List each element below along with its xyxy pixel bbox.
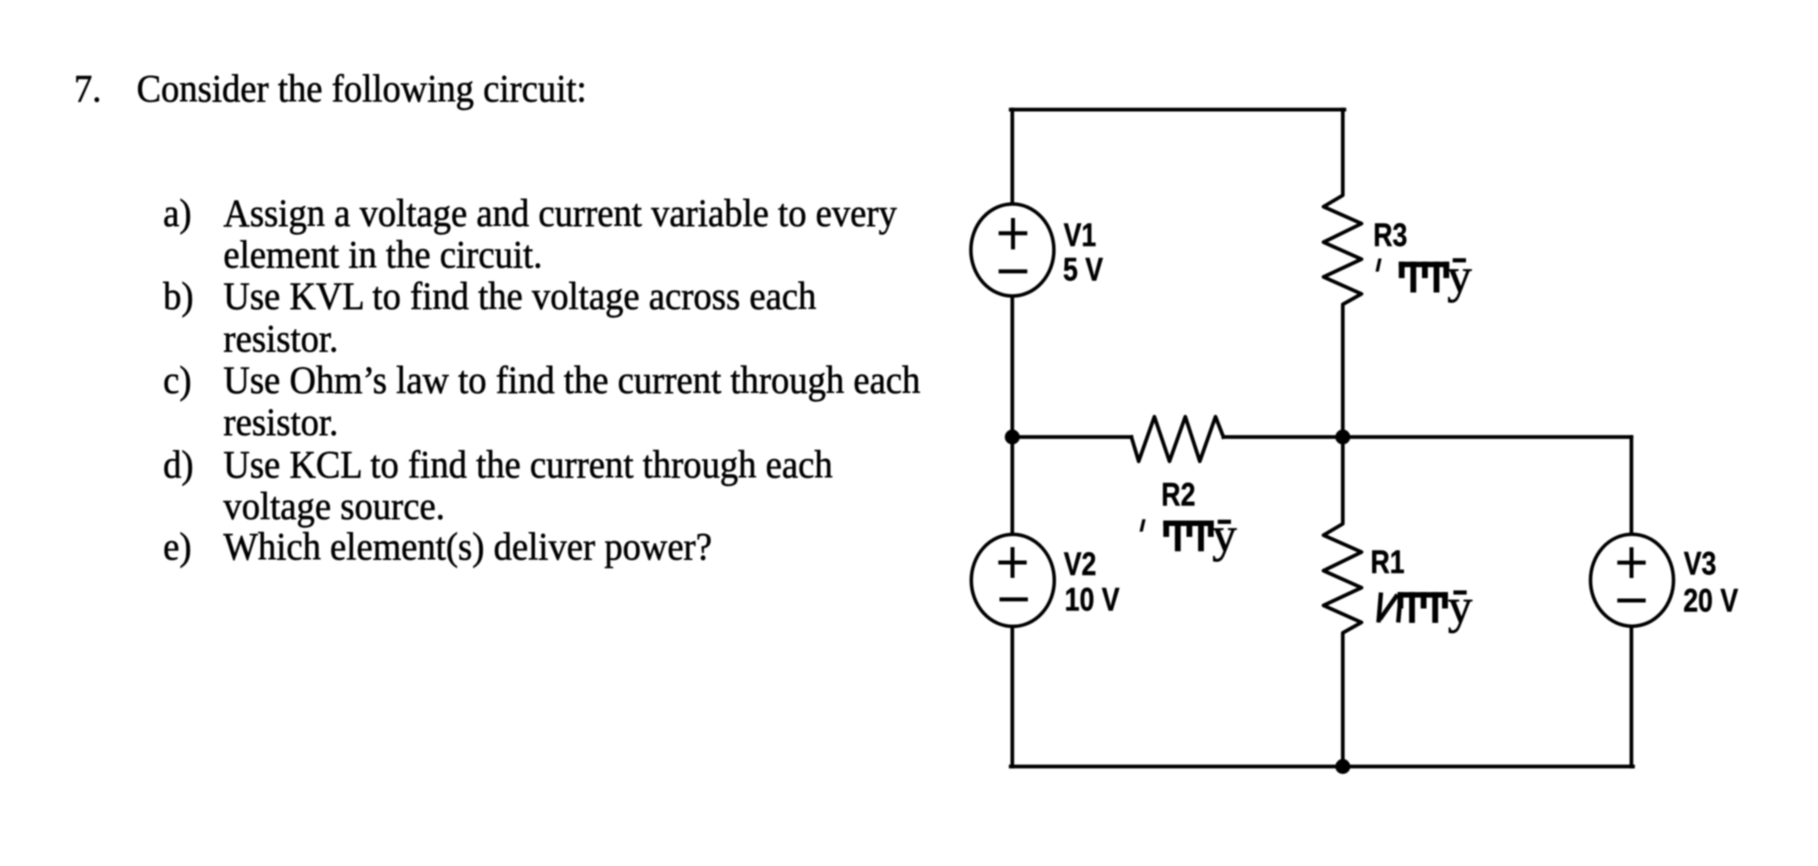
svg-text:Use Ohm’s law to find the curr: Use Ohm’s law to find the current throug… — [223, 359, 920, 403]
svg-text:a): a) — [163, 192, 191, 236]
R2 value comb glyph (corrupted ohms) — [1163, 521, 1213, 552]
svg-text:d): d) — [163, 443, 193, 487]
svg-text:V3: V3 — [1684, 546, 1717, 582]
svg-text:Which element(s) deliver power: Which element(s) deliver power? — [223, 525, 712, 569]
svg-text:element in the circuit.: element in the circuit. — [223, 233, 542, 277]
R3 value apostrophe glyph — [1376, 259, 1382, 272]
wire middle horizontal left segment — [1012, 435, 1131, 439]
svg-text:Use KVL to find the voltage ac: Use KVL to find the voltage across each — [223, 275, 816, 319]
svg-text:R3: R3 — [1373, 218, 1407, 254]
V3 minus sign — [1617, 599, 1645, 603]
wire bottom horizontal — [1011, 765, 1633, 769]
svg-text:R2: R2 — [1161, 477, 1195, 513]
svg-text:y: y — [1447, 248, 1472, 303]
V2 minus sign — [1000, 597, 1028, 601]
node junction dot left (V1/V2/R2) — [1005, 430, 1020, 445]
svg-text:V2: V2 — [1064, 547, 1097, 583]
wire top horizontal — [1011, 108, 1345, 112]
voltage source V1 circle — [971, 204, 1054, 296]
svg-text:b): b) — [163, 275, 193, 319]
wire right vertical branch (V3) — [1630, 437, 1634, 767]
svg-text:20 V: 20 V — [1683, 583, 1738, 619]
V2 plus sign — [998, 547, 1026, 578]
svg-text:10 V: 10 V — [1065, 582, 1120, 618]
svg-text:R1: R1 — [1371, 545, 1405, 581]
svg-text:e): e) — [163, 525, 191, 569]
svg-text:y: y — [1448, 579, 1473, 634]
svg-text:y: y — [1212, 507, 1237, 562]
V1 minus sign — [999, 269, 1028, 273]
node junction dot center (R3/R2/R1) — [1335, 430, 1350, 445]
svg-text:resistor.: resistor. — [223, 401, 338, 445]
svg-text:7.: 7. — [74, 67, 101, 111]
wire middle horizontal right segment — [1223, 435, 1631, 439]
wire left vertical branch (V1/V2) — [1010, 110, 1014, 767]
resistor R1 (with leads) — [1324, 437, 1362, 767]
svg-text:voltage source.: voltage source. — [223, 485, 444, 529]
svg-text:5 V: 5 V — [1063, 252, 1103, 288]
svg-text:resistor.: resistor. — [223, 317, 338, 361]
R3 value comb glyph (corrupted ohms) — [1399, 262, 1449, 293]
R2 value apostrophe glyph — [1140, 519, 1146, 531]
svg-text:Use KCL to find the current th: Use KCL to find the current through each — [223, 443, 832, 487]
resistor R2 (horizontal zigzag) — [1131, 417, 1223, 462]
voltage source V3 circle — [1591, 534, 1674, 626]
svg-text:Assign a voltage and current v: Assign a voltage and current variable to… — [223, 192, 896, 236]
R1 value I-glyph (corrupted digit) — [1379, 593, 1401, 623]
R1 value comb glyph (corrupted ohms) — [1398, 592, 1448, 623]
voltage source V2 circle — [971, 534, 1054, 626]
V3 plus sign — [1617, 547, 1645, 578]
svg-text:c): c) — [163, 359, 191, 403]
node junction dot bottom (R1/bottom wire) — [1335, 759, 1350, 774]
V1 plus sign — [999, 218, 1028, 249]
resistor R3 (with leads) — [1324, 110, 1362, 437]
svg-text:V1: V1 — [1064, 218, 1097, 254]
svg-text:Consider the following circuit: Consider the following circuit: — [137, 67, 587, 111]
